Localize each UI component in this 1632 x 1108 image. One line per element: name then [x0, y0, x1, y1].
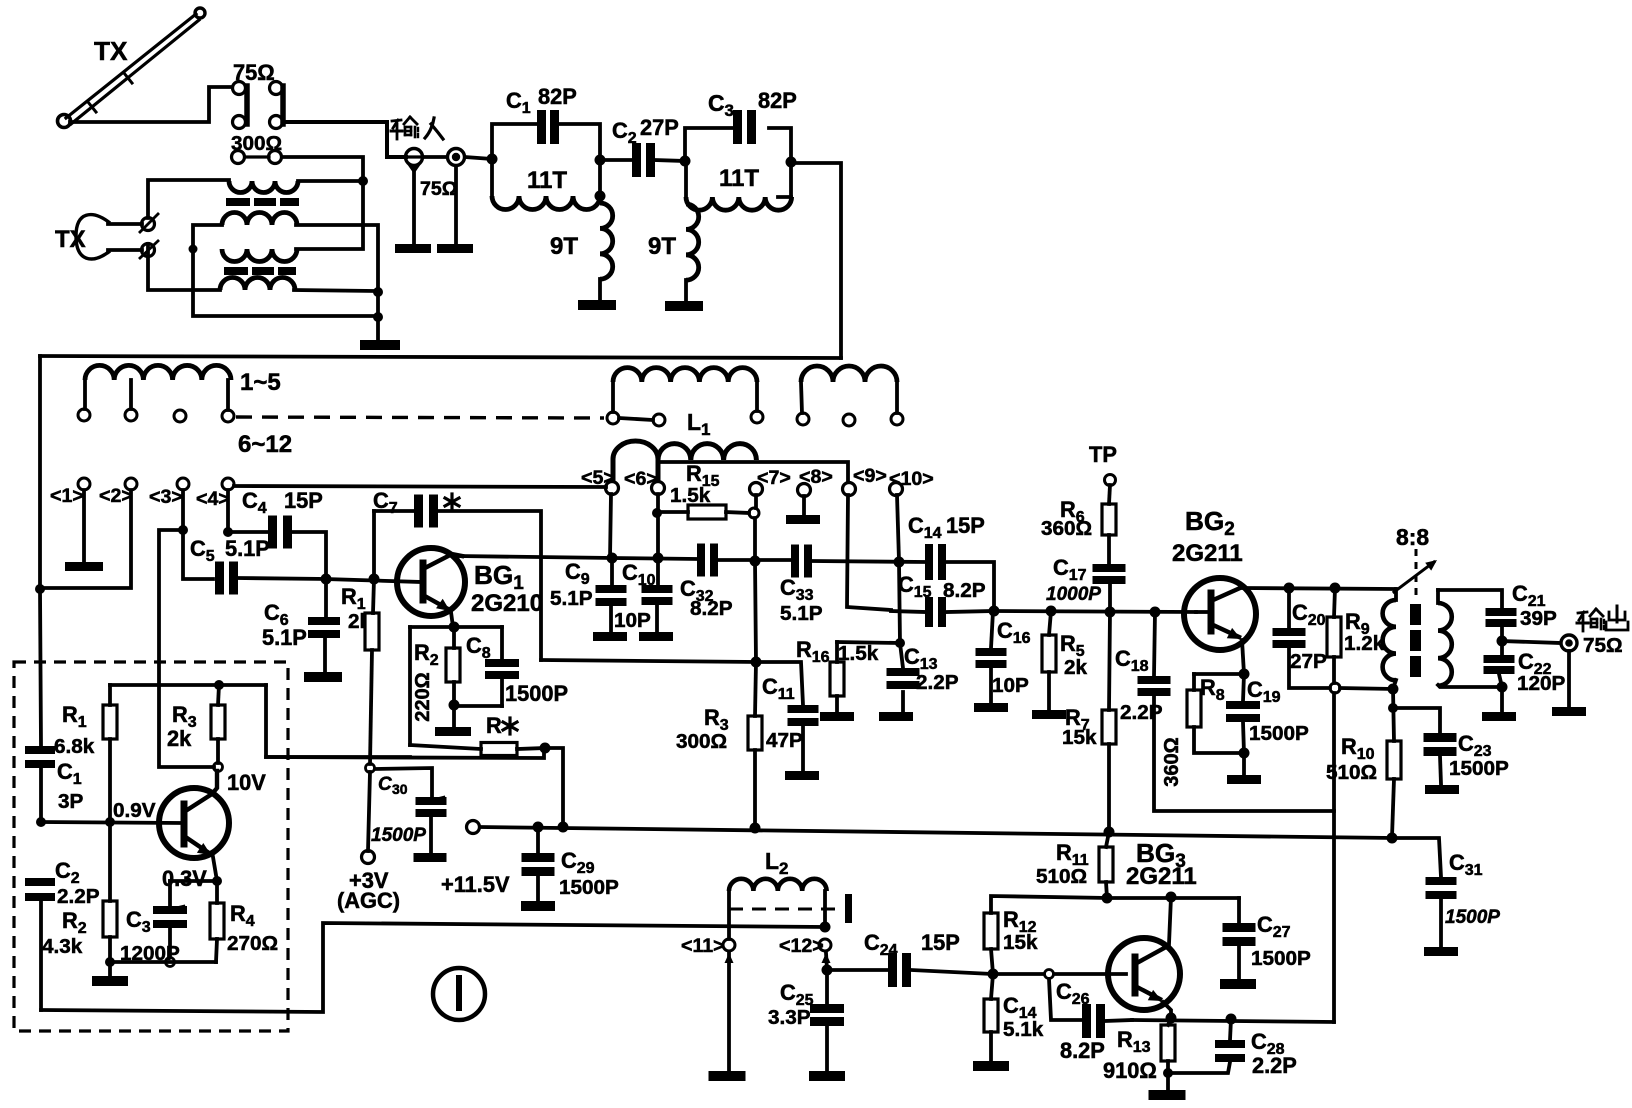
svg-text:2.2P: 2.2P — [1120, 701, 1163, 724]
svg-text:75Ω: 75Ω — [420, 178, 458, 200]
capacitor C3 — [733, 110, 756, 144]
capacitor C2 agc — [25, 878, 55, 901]
capacitor C19 — [1226, 701, 1260, 722]
wire left edge down — [40, 589, 41, 746]
contact circle a4 — [222, 410, 234, 422]
svg-text:360Ω: 360Ω — [1161, 737, 1183, 786]
wire T2 right to down-jog — [296, 225, 378, 290]
node emitter BG2 — [1239, 669, 1250, 680]
capacitor C1 agc — [25, 746, 55, 768]
coil section3 left leg — [801, 382, 802, 413]
contact circle b1 — [78, 478, 90, 490]
wire agc top rail — [110, 683, 266, 687]
coil bank1 mid leg — [129, 380, 133, 409]
node rowB C17 — [1105, 607, 1116, 618]
resistor R8 — [1187, 690, 1201, 727]
wire c5t-c6t — [619, 418, 653, 420]
svg-text:<9>: <9> — [853, 465, 887, 487]
node emitter BG1 — [449, 622, 460, 633]
wire C31 to ground — [1439, 899, 1443, 946]
node C29 supply — [533, 822, 544, 833]
label R9 1.2k — [1344, 609, 1385, 655]
resistor R4 agc — [210, 903, 224, 939]
node supply Rstar — [558, 822, 569, 833]
transformer secondary coil — [1438, 590, 1452, 686]
wire contact4 down — [226, 490, 230, 532]
terminal C30 tap — [366, 764, 375, 773]
wire tank1 top — [492, 124, 600, 160]
wire R10 leads — [1392, 689, 1394, 837]
ground terminal1 — [395, 244, 431, 253]
wire R13 leads — [1168, 1018, 1171, 1072]
wire R2 box top — [410, 625, 502, 629]
wire R13 to ground — [1166, 1073, 1170, 1089]
label C6 5.1P — [262, 600, 307, 650]
resistor R12 — [984, 913, 998, 949]
svg-text:2.2P: 2.2P — [916, 671, 959, 694]
capacitor C21 — [1486, 608, 1517, 627]
capacitor C11 — [788, 705, 819, 726]
folded dipole element — [76, 215, 142, 259]
terminal C20 R9 bottom — [1330, 683, 1340, 693]
label C8 — [466, 633, 491, 662]
label R10 510 — [1326, 734, 1377, 784]
wire agc out right — [266, 685, 410, 757]
wire C7 right — [438, 511, 541, 660]
label R12 15k — [1003, 907, 1038, 954]
box tuner left edge — [38, 356, 42, 589]
label 1500P C30 — [371, 825, 426, 846]
ground contact8 — [786, 515, 820, 524]
label C1 82P — [506, 84, 577, 117]
label R3 2k agc — [167, 702, 197, 751]
svg-text:4.3k: 4.3k — [42, 935, 83, 958]
wire C8 leads — [500, 627, 504, 706]
coil section2 6-12 — [613, 368, 757, 382]
contact circle 10 — [890, 483, 903, 496]
ground C30 — [414, 853, 447, 862]
wire C3 top lead — [168, 881, 172, 906]
wire antenna to 75ohm link — [70, 87, 232, 122]
wire C11 lead — [756, 662, 803, 705]
wire BG1 collector to rowA — [458, 556, 612, 558]
ground R2 agc — [92, 976, 128, 986]
balun coil T2 middle winding — [222, 213, 297, 226]
wire R12 bottom — [991, 949, 993, 974]
terminal +3V — [362, 851, 375, 864]
balun coil T1 top winding — [229, 181, 298, 193]
svg-text:3P: 3P — [58, 790, 84, 813]
contact circle 8 — [798, 484, 811, 497]
capacitor C23 — [1424, 733, 1457, 756]
wire base tap to BG3 — [1054, 972, 1126, 976]
ground C16 — [974, 703, 1008, 712]
label C17 1000P — [1046, 555, 1101, 605]
ground contact1 — [65, 562, 103, 571]
wire tank2 left side — [684, 161, 688, 197]
wire C15 left — [891, 611, 925, 612]
svg-text:<4>: <4> — [196, 488, 230, 510]
resistor R2 bg1 — [446, 648, 460, 682]
node rowB C18 — [1150, 607, 1161, 618]
transistor BG3 — [1108, 897, 1180, 1018]
contact row wire 4-5 — [234, 486, 606, 487]
capacitor C30 — [416, 797, 447, 817]
resistor R2 agc — [103, 901, 117, 937]
label contact12 — [779, 935, 824, 957]
resistor R9 — [1327, 617, 1341, 657]
contact circle a2 — [125, 409, 137, 421]
svg-text:1500P: 1500P — [1449, 757, 1509, 780]
svg-text:15k: 15k — [1003, 931, 1038, 954]
wire C15 right — [946, 611, 994, 612]
label C19 1500P — [1247, 677, 1309, 745]
label C13 2.2P — [904, 644, 959, 694]
contact circle 11 — [723, 939, 735, 951]
label C23 1500P — [1449, 731, 1509, 780]
node rowB C16 — [989, 606, 1000, 617]
wire tank2 to box feed — [797, 163, 841, 358]
terminal input 75ohm — [405, 149, 423, 175]
terminal output — [1561, 635, 1577, 651]
svg-text:10P: 10P — [992, 674, 1029, 697]
contact circle c9t — [843, 414, 855, 426]
wire to BG3 base — [993, 972, 1044, 976]
ground R14 — [973, 1061, 1009, 1071]
label shuchu output — [1577, 606, 1628, 631]
node rowA c7leg — [750, 556, 761, 567]
wire C28 leads — [1168, 1019, 1231, 1073]
label C25 3.3P — [768, 980, 814, 1029]
resistor R15 — [688, 505, 726, 519]
label C27 1500P — [1251, 912, 1311, 970]
wire c7 to rowA — [755, 495, 756, 561]
terminal 10V point — [214, 763, 223, 772]
label C20 27P — [1290, 600, 1327, 673]
svg-text:1500P: 1500P — [559, 876, 619, 899]
wire base row — [326, 579, 421, 582]
label contact7 — [757, 467, 791, 489]
label C10 — [614, 560, 656, 632]
label BG2 — [1185, 506, 1235, 540]
label 11T tank1 — [527, 167, 567, 194]
node rowB R5 — [1046, 606, 1057, 617]
ground 9T tank2 — [665, 301, 703, 311]
label C31 1500P — [1445, 850, 1500, 928]
wire rowA 1 — [612, 558, 697, 559]
wire tank1 right side — [598, 160, 602, 196]
wire C4 to node — [292, 532, 326, 579]
ground C23 — [1425, 785, 1459, 794]
label C3 82P — [708, 88, 797, 120]
wire C14 right — [946, 562, 994, 611]
arrow contact12 — [822, 953, 831, 970]
node agc collector top — [214, 680, 224, 690]
capacitor C20 — [1273, 628, 1306, 648]
ground terminal2 — [437, 244, 473, 253]
label contact8 — [799, 466, 833, 488]
node transformer bottom — [1388, 684, 1399, 695]
coil 11T tank1 — [492, 196, 600, 210]
wire C20 leads — [1289, 588, 1330, 688]
svg-text:47P: 47P — [766, 729, 803, 752]
terminal BG3 base tap — [1045, 970, 1054, 979]
node rowA c10leg — [894, 557, 905, 568]
wire supply row — [480, 827, 1392, 838]
node R11 bottom — [1102, 893, 1113, 904]
resistor R5 — [1042, 635, 1056, 672]
label C15 8.2P — [898, 572, 986, 602]
wire R2 ground agc — [108, 962, 112, 975]
wire R16 ground lead — [835, 696, 839, 711]
wire R12 top — [991, 896, 1107, 913]
resistor R1 agc — [103, 705, 117, 739]
node balun right mid — [373, 287, 383, 297]
ground C27 — [1220, 979, 1256, 989]
label C28 2.2P — [1251, 1029, 1297, 1078]
label C30 — [378, 774, 408, 797]
label 75ohm input — [420, 178, 458, 200]
wire TP to R6 — [1109, 485, 1110, 504]
wire C18 leads — [1154, 612, 1334, 811]
svg-text:10P: 10P — [614, 609, 651, 632]
box tuner top edge — [40, 356, 841, 358]
contact circle a3 — [174, 410, 186, 422]
transistor BG agc — [159, 771, 229, 881]
wire R16 top — [837, 642, 900, 662]
wire c6 to rowA — [656, 494, 660, 559]
capacitor C6 — [308, 617, 340, 638]
label contact 4 — [196, 488, 230, 510]
ground C22 — [1482, 712, 1516, 721]
wire Rstar to supply — [545, 748, 563, 827]
node rowC C20 — [1284, 583, 1295, 594]
coil bank1 left leg — [83, 380, 87, 409]
balun core bar upper — [226, 198, 299, 206]
capacitor C1 — [537, 110, 559, 144]
capacitor C4 — [268, 516, 292, 549]
transformer core — [1410, 604, 1421, 677]
label R1 6.8k — [54, 702, 95, 758]
wire tank1 left side — [490, 159, 494, 196]
label 8:8 — [1396, 524, 1429, 550]
label R16 1.5k — [796, 637, 879, 666]
capacitor C13 — [887, 668, 920, 689]
coil section2 left leg — [611, 382, 615, 412]
svg-text:6.8k: 6.8k — [54, 735, 95, 758]
wire bottomnode to transformer — [1340, 688, 1393, 689]
resistor R3 agc — [211, 705, 225, 739]
svg-text:910Ω: 910Ω — [1103, 1058, 1157, 1083]
feed point terminal lower — [140, 241, 158, 258]
coil bank1 right leg — [226, 380, 230, 410]
svg-text:9T: 9T — [648, 233, 676, 260]
svg-text:1500P: 1500P — [371, 825, 426, 846]
node tank1 input — [487, 154, 498, 165]
svg-text:11T: 11T — [719, 165, 759, 192]
balun coil T4 bottom winding — [220, 278, 295, 291]
label C14 5.1k — [1003, 993, 1044, 1041]
svg-text:1500P: 1500P — [1251, 947, 1311, 970]
wire contact2 to left edge — [40, 490, 131, 588]
ground C11 — [785, 771, 819, 780]
label C4 15P — [242, 488, 323, 517]
resistor R13 — [1161, 1025, 1175, 1061]
wire c10 to rowA — [897, 495, 899, 561]
ground R2 bg1 — [435, 727, 471, 736]
wire output terminal ground — [1567, 651, 1571, 706]
label Rstar — [486, 713, 517, 738]
label C24 15P — [864, 930, 960, 959]
svg-text:5.1k: 5.1k — [1003, 1018, 1044, 1041]
label 0.3V — [162, 866, 207, 891]
wire C16 leads — [991, 611, 993, 702]
L2 slug dashed — [729, 894, 852, 923]
coil L2 right leg — [823, 891, 827, 922]
wire c7leg vertical — [755, 561, 756, 662]
svg-text:75Ω: 75Ω — [1583, 634, 1623, 657]
capacitor C24 — [888, 953, 911, 987]
node C11 junction — [751, 657, 762, 668]
ground output — [1552, 707, 1586, 716]
ground C25 — [809, 1071, 845, 1081]
capacitor C31 — [1426, 877, 1457, 899]
svg-text:510Ω: 510Ω — [1326, 761, 1377, 784]
wire bottom node row — [110, 960, 216, 964]
svg-text:1500P: 1500P — [1249, 722, 1309, 745]
resistor R16 — [830, 662, 844, 696]
resistor R11 — [1099, 847, 1113, 882]
wire C10 leads — [657, 558, 658, 631]
contact circle c7t — [751, 411, 763, 423]
node balun right lower — [373, 312, 383, 322]
wire base row agc — [41, 822, 182, 823]
node R7 supply — [1104, 827, 1115, 838]
node R16 c13 — [895, 638, 905, 648]
node R1 base — [105, 817, 115, 827]
svg-text:1500P: 1500P — [505, 681, 568, 706]
label 9T tank2 — [648, 233, 676, 260]
wire to C23 — [1393, 708, 1440, 733]
label C26 8.2P — [1056, 979, 1105, 1063]
wire emitter to R8 — [1194, 672, 1244, 676]
svg-text:11T: 11T — [527, 167, 567, 194]
wire C30 top — [375, 768, 432, 797]
wire R2 box left — [408, 627, 412, 745]
label 300ohm link — [231, 132, 282, 155]
capacitor C28 — [1215, 1040, 1245, 1062]
wire R9 leads — [1334, 588, 1335, 683]
label C22 120P — [1517, 649, 1566, 695]
capacitor C27 — [1223, 923, 1256, 946]
label 9T tank1 — [550, 233, 578, 260]
node R15 left — [652, 508, 662, 518]
wire c9 to C15 — [847, 495, 891, 610]
svg-text:8:8: 8:8 — [1396, 524, 1429, 550]
terminal input coax — [448, 149, 465, 166]
node R10 top — [1388, 703, 1398, 713]
capacitor C22 — [1484, 655, 1515, 674]
label R1 2k bg1 — [341, 584, 372, 633]
svg-text:2G210: 2G210 — [471, 590, 543, 617]
node C10 top — [653, 553, 664, 564]
capacitor C8 — [485, 659, 519, 679]
svg-text:270Ω: 270Ω — [227, 932, 278, 955]
wire box to Rstar — [410, 745, 481, 749]
wire BG3 collector row — [1107, 896, 1239, 900]
wire agc long row — [266, 750, 544, 758]
label 2G211 BG3 — [1126, 863, 1197, 890]
node balun top junction — [358, 176, 368, 186]
svg-text:2k: 2k — [1064, 656, 1088, 679]
wire secondary bottom — [1438, 685, 1502, 687]
svg-text:9T: 9T — [550, 233, 578, 260]
coil L1 — [613, 441, 756, 482]
svg-text:15P: 15P — [921, 930, 960, 955]
capacitor C2 — [632, 143, 655, 177]
wire rowB to base — [1196, 610, 1207, 614]
label contact9 — [853, 465, 887, 487]
terminal +11.5V — [467, 821, 480, 834]
node contact4 — [223, 527, 233, 537]
label C1 3P — [57, 759, 84, 813]
wire C23 to ground — [1440, 756, 1441, 784]
wire R4 leads — [216, 881, 217, 962]
antenna TX telescopic rod — [58, 8, 206, 128]
svg-text:R: R — [486, 713, 502, 738]
wire terminal2 ground lead — [454, 166, 458, 243]
wire secondary top — [1438, 590, 1502, 608]
wire rowA 2 — [719, 558, 791, 562]
svg-text:82P: 82P — [758, 88, 797, 113]
wire T2 left jog — [193, 225, 222, 249]
wire R15 left — [662, 510, 688, 514]
svg-text:1000P: 1000P — [1046, 584, 1101, 605]
wire box bottom out — [41, 923, 825, 1012]
ground C31 — [1424, 947, 1458, 956]
label L2 — [765, 848, 788, 878]
label 75ohm output — [1583, 634, 1623, 657]
contact circle 7 — [750, 483, 763, 496]
wire R7 leads — [1109, 612, 1110, 832]
wire R2 to ground — [452, 706, 456, 726]
label R6 360 — [1041, 497, 1092, 540]
transformer primary coil — [1383, 589, 1396, 680]
node C9 top — [607, 553, 618, 564]
node C28 top — [1226, 1014, 1237, 1025]
wire C13 leads — [900, 643, 903, 711]
capacitor C3 agc — [153, 906, 187, 928]
label 1.5k R15 — [670, 484, 711, 507]
wire rowB — [994, 611, 1196, 612]
svg-text:120P: 120P — [1517, 672, 1566, 695]
wire R3 leads agc — [218, 685, 219, 763]
wire terminal2 to tank1 — [465, 157, 492, 159]
svg-text:2.2P: 2.2P — [1252, 1053, 1297, 1078]
ground C13 — [879, 712, 913, 721]
svg-text:8.2P: 8.2P — [1060, 1038, 1105, 1063]
wire collector to C27 — [1237, 898, 1241, 923]
label contact 3 — [149, 486, 183, 508]
band I marker — [433, 968, 485, 1020]
node R10 supply — [1387, 833, 1398, 844]
wire C7 left — [374, 511, 414, 579]
svg-text:TX: TX — [94, 36, 128, 66]
coil bank1 1-5 — [85, 365, 231, 380]
svg-text:(AGC): (AGC) — [337, 888, 400, 913]
capacitor C33 — [791, 545, 812, 578]
terminal TP — [1105, 475, 1116, 486]
